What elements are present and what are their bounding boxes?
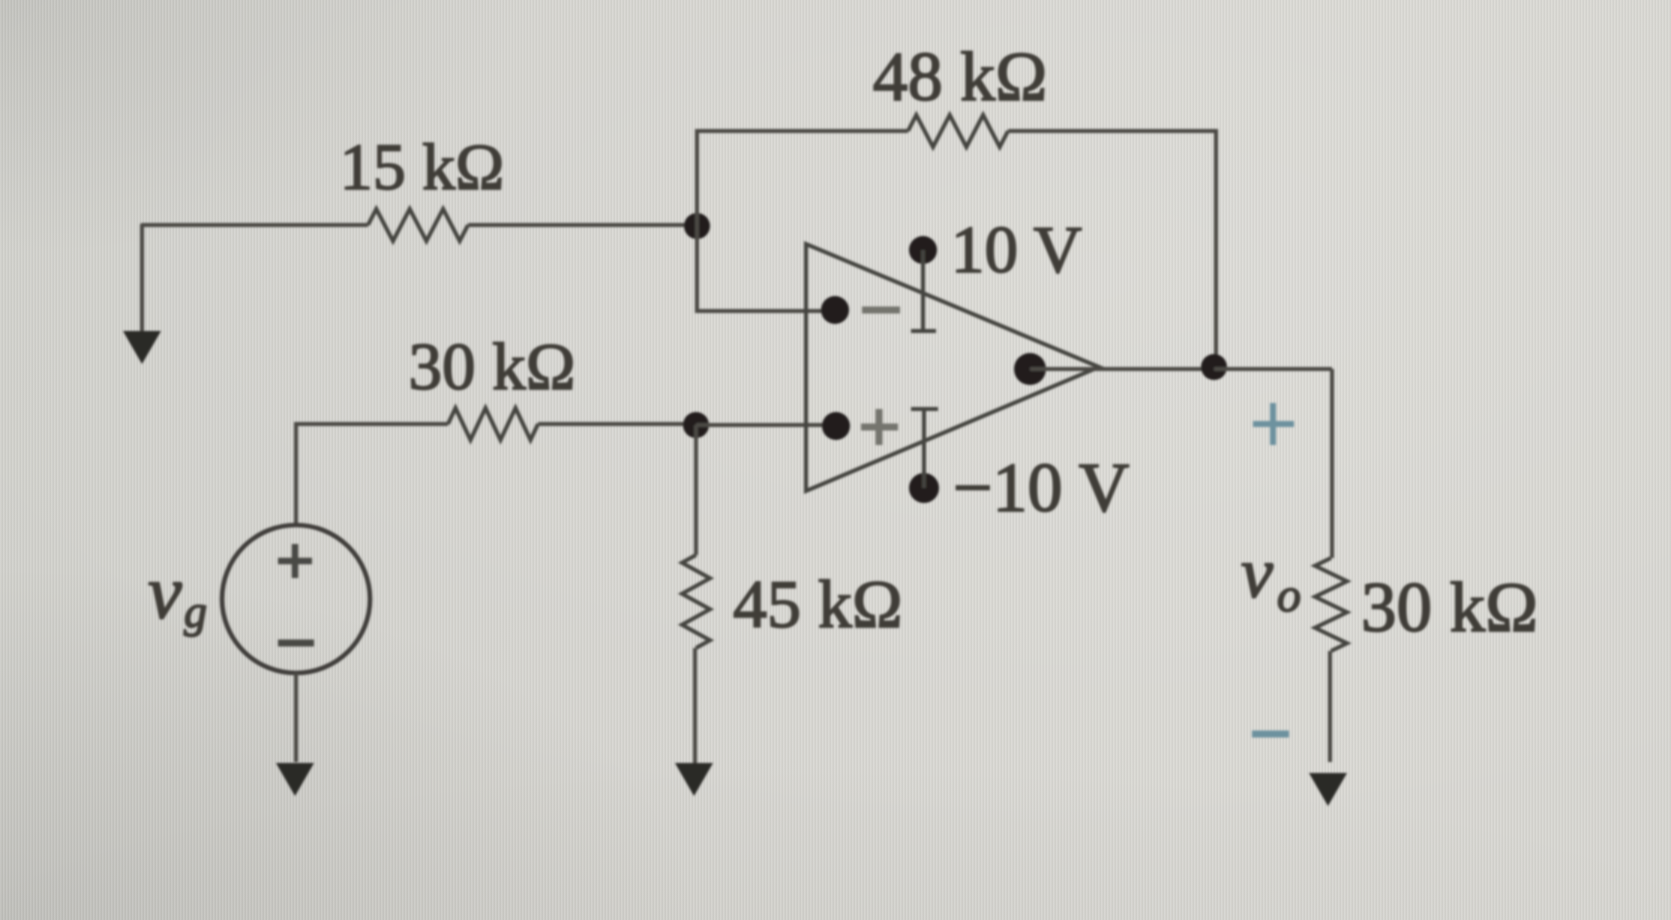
node A junction dot (684, 213, 710, 239)
wire node B down to 45k (694, 425, 698, 555)
wire node A down to inverting input (697, 226, 824, 311)
wire vg up (294, 425, 298, 524)
wire 30k left segment (294, 422, 448, 426)
resistor R 30 kOhm (load) vertical zigzag (1315, 558, 1347, 651)
svg-text:48 kΩ: 48 kΩ (873, 39, 1048, 116)
wire 30k right segment to node B (538, 422, 696, 426)
svg-text:v: v (1241, 533, 1273, 613)
resistor R 30 kOhm (input) zigzag (448, 408, 538, 440)
resistor R 15 kOhm zigzag (368, 209, 468, 241)
vg minus sign (278, 640, 314, 647)
wire 45k down (693, 648, 697, 763)
wire output right and down (1214, 369, 1332, 558)
source vg circle (222, 525, 370, 673)
arrow down (load ground) (1309, 773, 1347, 806)
arrow down (left reference) (123, 331, 161, 364)
vg plus sign (278, 544, 312, 578)
node B junction dot (683, 412, 709, 438)
svg-text:−10 V: −10 V (953, 450, 1129, 527)
wire feedback top right segment (1008, 129, 1218, 133)
arrow down (45k ground) (675, 763, 713, 796)
op-amp noninverting input dot (822, 412, 850, 440)
resistor R 48 kOhm zigzag (908, 115, 1008, 147)
svg-text:45 kΩ: 45 kΩ (733, 566, 903, 642)
op-amp U1 triangle (806, 244, 1099, 491)
svg-text:10 V: 10 V (951, 213, 1082, 287)
op-amp negative supply dot (909, 473, 939, 503)
op-amp plus sign (861, 409, 898, 445)
op-amp positive supply dot (909, 236, 937, 264)
svg-text:15 kΩ: 15 kΩ (340, 131, 505, 204)
op-amp negative supply lead (911, 409, 938, 488)
wire output to node C (1030, 367, 1214, 371)
op-amp minus sign (862, 307, 900, 314)
svg-text:o: o (1277, 569, 1301, 622)
svg-text:30 kΩ: 30 kΩ (408, 330, 575, 404)
svg-text:v: v (148, 551, 182, 635)
op-amp positive supply lead (911, 250, 936, 331)
wire feedback top left segment (695, 129, 908, 133)
wire feedback right drop to output node (1214, 131, 1218, 367)
label vo plus sign (1253, 403, 1294, 445)
wire feedback up from node A (695, 131, 699, 226)
node C junction dot (1201, 354, 1227, 380)
wire node B to noninverting input (696, 423, 824, 427)
wire vg down (294, 673, 298, 762)
wire 15k left segment (141, 223, 368, 227)
arrow down (vg ground) (276, 763, 314, 796)
wire 15k right segment to node A (468, 223, 697, 227)
svg-text:g: g (184, 586, 207, 637)
op-amp inverting input dot (821, 296, 849, 324)
svg-text:30 kΩ: 30 kΩ (1361, 569, 1538, 647)
op-amp output dot (1014, 353, 1046, 385)
wire load down (1328, 651, 1332, 762)
label vo minus sign (1252, 731, 1289, 738)
resistor R 45 kOhm vertical zigzag (682, 555, 710, 648)
wire left drop (140, 224, 144, 332)
